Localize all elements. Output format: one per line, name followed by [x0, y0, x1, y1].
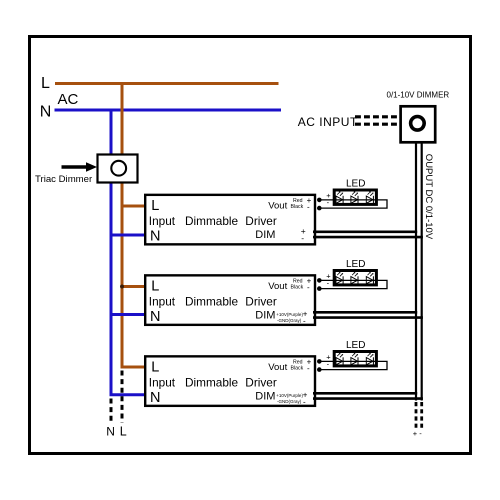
- svg-text:L: L: [151, 198, 159, 214]
- wire L branch (brown vertical): [122, 82, 145, 367]
- svg-text:Driver: Driver: [245, 214, 277, 228]
- junction on L branch at driver 2: [120, 285, 124, 289]
- svg-text:LED: LED: [346, 178, 365, 189]
- wire L stub to driver 2: [122, 285, 145, 288]
- svg-text:AC INPUT: AC INPUT: [298, 115, 358, 129]
- svg-text:L: L: [120, 425, 127, 439]
- svg-text:Vout: Vout: [268, 362, 287, 373]
- svg-text:-GND(Gray): -GND(Gray): [277, 318, 302, 323]
- wire N (blue AC line): [55, 109, 282, 112]
- arrow to triac dimmer: [62, 165, 88, 169]
- wire DIM- driver 3: [313, 397, 423, 400]
- svg-text:Triac Dimmer: Triac Dimmer: [35, 174, 93, 185]
- svg-text:Dimmable: Dimmable: [185, 295, 239, 309]
- wire DIM+ driver 3: [313, 392, 417, 395]
- node Vout- driver 2: [317, 286, 322, 291]
- svg-text:L: L: [151, 360, 159, 376]
- svg-text:Input: Input: [149, 376, 176, 390]
- 0/1-10V dimmer: [401, 106, 436, 142]
- dashed N stub bottom: [110, 399, 113, 423]
- triac dimmer: [98, 155, 138, 183]
- wire DC output +: [415, 143, 417, 401]
- svg-text:LED: LED: [346, 259, 365, 270]
- svg-text:Black: Black: [291, 204, 304, 210]
- svg-text:-: -: [307, 283, 310, 292]
- node Vout- driver 3: [317, 367, 322, 372]
- svg-text:Red: Red: [293, 359, 303, 365]
- svg-text:-: -: [303, 316, 306, 325]
- wire N stub to driver 2: [111, 313, 145, 316]
- LED module 2: [322, 259, 388, 289]
- wire N branch (blue vertical): [111, 110, 145, 395]
- svg-text:+10V(Purple): +10V(Purple): [276, 393, 303, 398]
- dashed L stub bottom: [121, 371, 124, 423]
- dashed AC input wires: [355, 115, 399, 118]
- svg-text:Dimmable: Dimmable: [185, 376, 239, 390]
- svg-text:Driver: Driver: [245, 376, 277, 390]
- svg-text:LED: LED: [346, 340, 365, 351]
- svg-text:-: -: [307, 364, 310, 373]
- svg-text:N: N: [150, 390, 160, 406]
- dashed DC output stubs: [415, 402, 418, 429]
- node Vout+ driver 2: [317, 278, 322, 283]
- wire N stub to driver 1: [111, 234, 145, 237]
- wire DC output -: [421, 143, 423, 401]
- wire DIM+ driver 2: [313, 311, 417, 314]
- node Vout+ driver 1: [317, 198, 322, 203]
- svg-text:Red: Red: [293, 198, 303, 204]
- svg-text:Black: Black: [291, 285, 304, 291]
- svg-text:L: L: [151, 279, 159, 295]
- dimmable driver 1: [145, 195, 315, 245]
- wire L (brown AC line): [55, 82, 279, 85]
- wire L stub to driver 1: [122, 205, 145, 208]
- svg-text:0/1-10V DIMMER: 0/1-10V DIMMER: [387, 91, 450, 100]
- svg-text:+ -: + -: [413, 429, 422, 438]
- node Vout+ driver 3: [317, 359, 322, 364]
- wire DIM- driver 1: [313, 236, 423, 239]
- svg-text:-: -: [307, 202, 310, 211]
- svg-text:N: N: [40, 104, 52, 121]
- svg-text:DIM: DIM: [255, 310, 275, 322]
- svg-text:AC: AC: [58, 91, 79, 108]
- svg-text:Driver: Driver: [245, 295, 277, 309]
- svg-text:OUPUT DC 0/1-10V: OUPUT DC 0/1-10V: [423, 154, 434, 240]
- svg-text:Black: Black: [291, 366, 304, 372]
- wire DIM- driver 2: [313, 316, 423, 319]
- svg-text:Vout: Vout: [268, 201, 287, 212]
- svg-text:DIM: DIM: [255, 391, 275, 403]
- svg-text:+10V(Purple): +10V(Purple): [276, 312, 303, 317]
- dimmable driver 2: [145, 275, 315, 325]
- svg-text:Input: Input: [149, 214, 176, 228]
- svg-text:L: L: [41, 75, 50, 92]
- svg-text:N: N: [106, 425, 115, 439]
- svg-text:DIM: DIM: [255, 229, 275, 241]
- svg-text:Red: Red: [293, 278, 303, 284]
- LED module 3: [322, 340, 388, 370]
- svg-text:-: -: [303, 397, 306, 406]
- svg-text:Dimmable: Dimmable: [185, 214, 239, 228]
- svg-text:Input: Input: [149, 295, 176, 309]
- svg-text:N: N: [150, 309, 160, 325]
- svg-text:-GND(Gray): -GND(Gray): [277, 399, 302, 404]
- svg-text:Vout: Vout: [268, 281, 287, 292]
- node Vout- driver 1: [317, 206, 322, 211]
- wire DIM+ driver 1: [313, 231, 417, 234]
- LED module 1: [322, 178, 388, 208]
- svg-text:N: N: [150, 228, 160, 244]
- svg-text:-: -: [301, 233, 304, 243]
- dimmable driver 3: [145, 356, 315, 406]
